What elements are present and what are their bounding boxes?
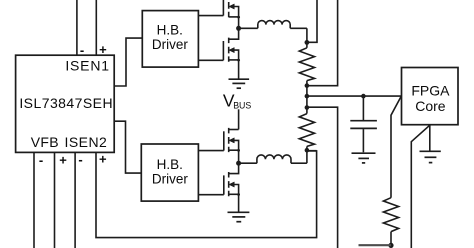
svg-text:ISEN2: ISEN2 bbox=[65, 134, 108, 150]
resistor R1 phase 1 sense spine bbox=[306, 28, 308, 48]
resistor R1 zigzag bbox=[299, 48, 314, 81]
FPGA Core box bbox=[402, 68, 459, 125]
wire U3 high gate output bbox=[198, 150, 223, 152]
IC U1 ISL73847SEH body bbox=[16, 55, 115, 152]
node cap junction dot bbox=[361, 94, 366, 99]
svg-text:ISEN1: ISEN1 bbox=[65, 58, 109, 74]
svg-text:+: + bbox=[59, 152, 67, 167]
wire ISEN1 minus sense bbox=[76, 0, 78, 55]
svg-text:+: + bbox=[99, 42, 107, 57]
node D dot bottom of R2 bbox=[305, 148, 310, 153]
transistor Q3 high-side phase 2 bbox=[224, 128, 240, 163]
transistor Q4 low-side phase 2 bbox=[224, 163, 240, 212]
svg-text:Driver: Driver bbox=[152, 171, 189, 186]
wire node B to top edge bbox=[307, 0, 338, 86]
wire ISEN2 plus to phase 2 sense node bbox=[96, 151, 317, 238]
svg-text:Driver: Driver bbox=[152, 37, 189, 52]
svg-text:-: - bbox=[80, 42, 84, 57]
ground below Q4 bbox=[228, 212, 250, 221]
ground below C1 bbox=[352, 153, 376, 163]
wire U1 PWM1 to driver 1 input bbox=[114, 38, 142, 86]
svg-text:ISL73847SEH: ISL73847SEH bbox=[19, 95, 113, 111]
transistor Q1 high-side phase 1 (cut at top) bbox=[223, 0, 240, 28]
wire ISEN1 plus sense bbox=[95, 0, 97, 55]
svg-text:Core: Core bbox=[415, 98, 446, 114]
ground below Q2 bbox=[229, 79, 250, 88]
svg-text:-: - bbox=[78, 152, 82, 167]
wire R2 bottom bbox=[306, 146, 308, 163]
wire L2 to node D bbox=[291, 162, 307, 164]
ground below FPGA bbox=[420, 151, 441, 162]
inductor L1 phase 1 bbox=[258, 21, 290, 29]
net label VBUS bbox=[223, 91, 252, 111]
wire ISEN2 minus bbox=[74, 152, 76, 248]
ground bar at bottom edge bbox=[359, 244, 392, 246]
wire R1 bottom to output node bbox=[306, 81, 308, 114]
node C dot top of R2 bbox=[305, 105, 310, 110]
wire L1 to sense node A bbox=[290, 27, 307, 29]
wire VOUT to FPGA bbox=[307, 95, 402, 97]
wire node D to ISEN2 plus riser bbox=[307, 150, 317, 152]
resistor R2 phase 2 sense zigzag bbox=[299, 114, 314, 147]
node phase 1 junction dot bbox=[236, 26, 241, 31]
node phase 2 junction dot bbox=[236, 161, 241, 166]
svg-text:+: + bbox=[99, 151, 107, 166]
svg-text:H.B.: H.B. bbox=[157, 157, 183, 172]
wire phase 1 node to inductor bbox=[239, 27, 258, 29]
wire U2 low gate output bbox=[198, 59, 223, 61]
wire node C to bottom edge bbox=[307, 107, 338, 248]
wire R3 bottom bbox=[390, 232, 392, 246]
wire U2 high gate output bbox=[198, 15, 223, 17]
wire phase 2 node to inductor bbox=[239, 162, 257, 164]
capacitor C1 bottom lead bbox=[362, 129, 364, 152]
capacitor C1 plates bbox=[350, 121, 377, 129]
half-bridge driver U2 box bbox=[142, 11, 198, 68]
wire VFB minus bbox=[33, 152, 35, 248]
half-bridge driver U3 box bbox=[141, 144, 198, 201]
inductor L2 phase 2 bbox=[257, 155, 291, 163]
transistor Q2 low-side phase 1 bbox=[223, 28, 240, 78]
node R3 bottom junction dot bbox=[388, 243, 393, 248]
svg-text:FPGA: FPGA bbox=[411, 83, 450, 99]
node B dot bottom of R1 bbox=[305, 83, 310, 88]
wire ISEN1 plus feed from top edge bbox=[307, 0, 317, 42]
node A dot top of R1 bbox=[305, 40, 310, 45]
svg-text:BUS: BUS bbox=[233, 101, 251, 111]
wire FPGA feedback tap diagonal bbox=[391, 97, 401, 198]
capacitor C1 top lead bbox=[362, 96, 364, 120]
svg-text:-: - bbox=[39, 152, 43, 167]
svg-text:H.B.: H.B. bbox=[157, 23, 183, 38]
wire FPGA return diagonal to bottom edge bbox=[411, 125, 430, 248]
wire U1 PWM2 to driver 2 input bbox=[114, 121, 141, 173]
wire U3 low gate output bbox=[198, 194, 223, 196]
wire VFB plus bbox=[54, 152, 56, 248]
wire VBUS to Q3 drain bbox=[238, 109, 240, 129]
svg-text:VFB: VFB bbox=[31, 134, 59, 150]
wire FPGA ground stub bbox=[429, 125, 431, 151]
node VOUT dot bbox=[305, 94, 310, 99]
resistor R3 feedback zigzag bbox=[383, 198, 398, 232]
